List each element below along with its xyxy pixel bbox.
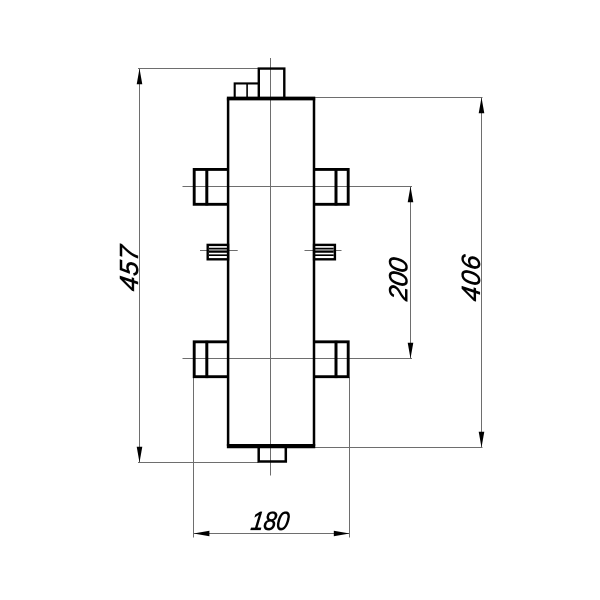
- arrow 457 top: [137, 69, 143, 85]
- arrow 406 top: [479, 98, 485, 114]
- dimension line 457: [139, 69, 141, 463]
- dimension text 406: [462, 254, 481, 302]
- right nipple threads: [315, 249, 334, 256]
- left nipple body: [208, 245, 229, 259]
- bottom fitting: [259, 446, 286, 462]
- right nipple centerline: [305, 250, 342, 252]
- bottom ports centerline: [183, 358, 413, 360]
- top-right port divider: [335, 168, 338, 206]
- top ports centerline: [183, 186, 413, 188]
- top-left port outline: [194, 169, 227, 204]
- top fitting: [259, 69, 285, 98]
- bottom-left port divider: [205, 340, 208, 378]
- top-left port divider: [205, 168, 208, 206]
- extension line right of 180: [349, 378, 351, 538]
- top-right port outline: [315, 169, 349, 204]
- arrow 200 bottom: [408, 343, 414, 359]
- right nipple body: [314, 245, 335, 259]
- arrow 180 left: [194, 531, 210, 537]
- extension line bottom of 457: [138, 462, 259, 464]
- extension line top of 406: [315, 97, 483, 99]
- arrow 406 bottom: [479, 432, 485, 448]
- body right wall: [313, 98, 316, 446]
- arrow 200 top: [408, 187, 414, 203]
- dimension line 406: [481, 98, 483, 448]
- bottom-left port outline: [194, 342, 227, 377]
- body bottom edge: [227, 444, 315, 448]
- dimension text 180: [251, 512, 291, 531]
- extension line bottom of 406: [315, 447, 483, 449]
- body left wall: [227, 98, 230, 446]
- top fitting step divider: [246, 83, 248, 97]
- arrow 180 right: [334, 531, 350, 537]
- dimension line 180: [194, 533, 350, 535]
- arrow 457 bottom: [137, 447, 143, 463]
- bottom-right port outline: [315, 342, 349, 377]
- left nipple centerline: [200, 250, 238, 252]
- dimension text 457: [120, 244, 138, 292]
- extension line left of 180: [193, 378, 195, 538]
- left nipple threads: [209, 249, 228, 256]
- bottom-right port divider: [335, 340, 338, 378]
- dimension text 200: [389, 257, 408, 302]
- top fitting step: [235, 83, 258, 97]
- extension line top of 457: [138, 68, 259, 70]
- dimension line 200: [410, 187, 412, 359]
- vertical centerline: [270, 58, 272, 476]
- body top edge: [227, 97, 315, 101]
